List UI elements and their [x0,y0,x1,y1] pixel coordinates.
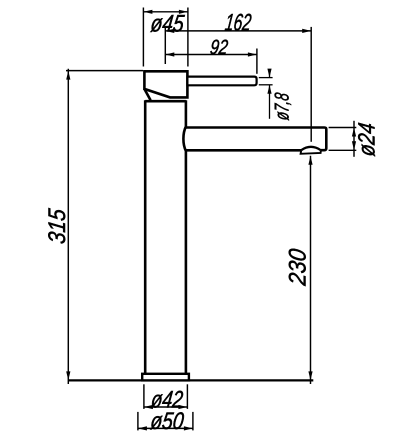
handle cap [144,71,187,97]
dimension Ø7,8 [259,71,273,119]
svg-text:ø50: ø50 [149,408,186,435]
body column [145,100,186,373]
svg-text:162: 162 [223,10,252,37]
lever rear tip [144,89,150,101]
svg-text:ø24: ø24 [353,121,379,157]
base flange [142,374,189,381]
dimension Ø45 [143,8,188,67]
dimension 162 [165,27,311,142]
mounting surface line [68,379,313,381]
svg-text:ø45: ø45 [149,10,186,37]
spout [186,128,327,151]
dimension 92 [165,49,257,74]
svg-text:315: 315 [44,207,71,245]
dimension 230 [310,156,312,384]
dimension Ø24 [329,121,357,157]
svg-text:92: 92 [209,36,230,59]
dimension 315 [66,69,143,384]
dimension Ø50 [138,412,193,431]
svg-text:230: 230 [284,247,311,288]
svg-text:ø7,8: ø7,8 [271,92,293,122]
dimension Ø42 [144,384,188,409]
lever handle bar [187,77,256,86]
aerator outlet [301,147,321,154]
